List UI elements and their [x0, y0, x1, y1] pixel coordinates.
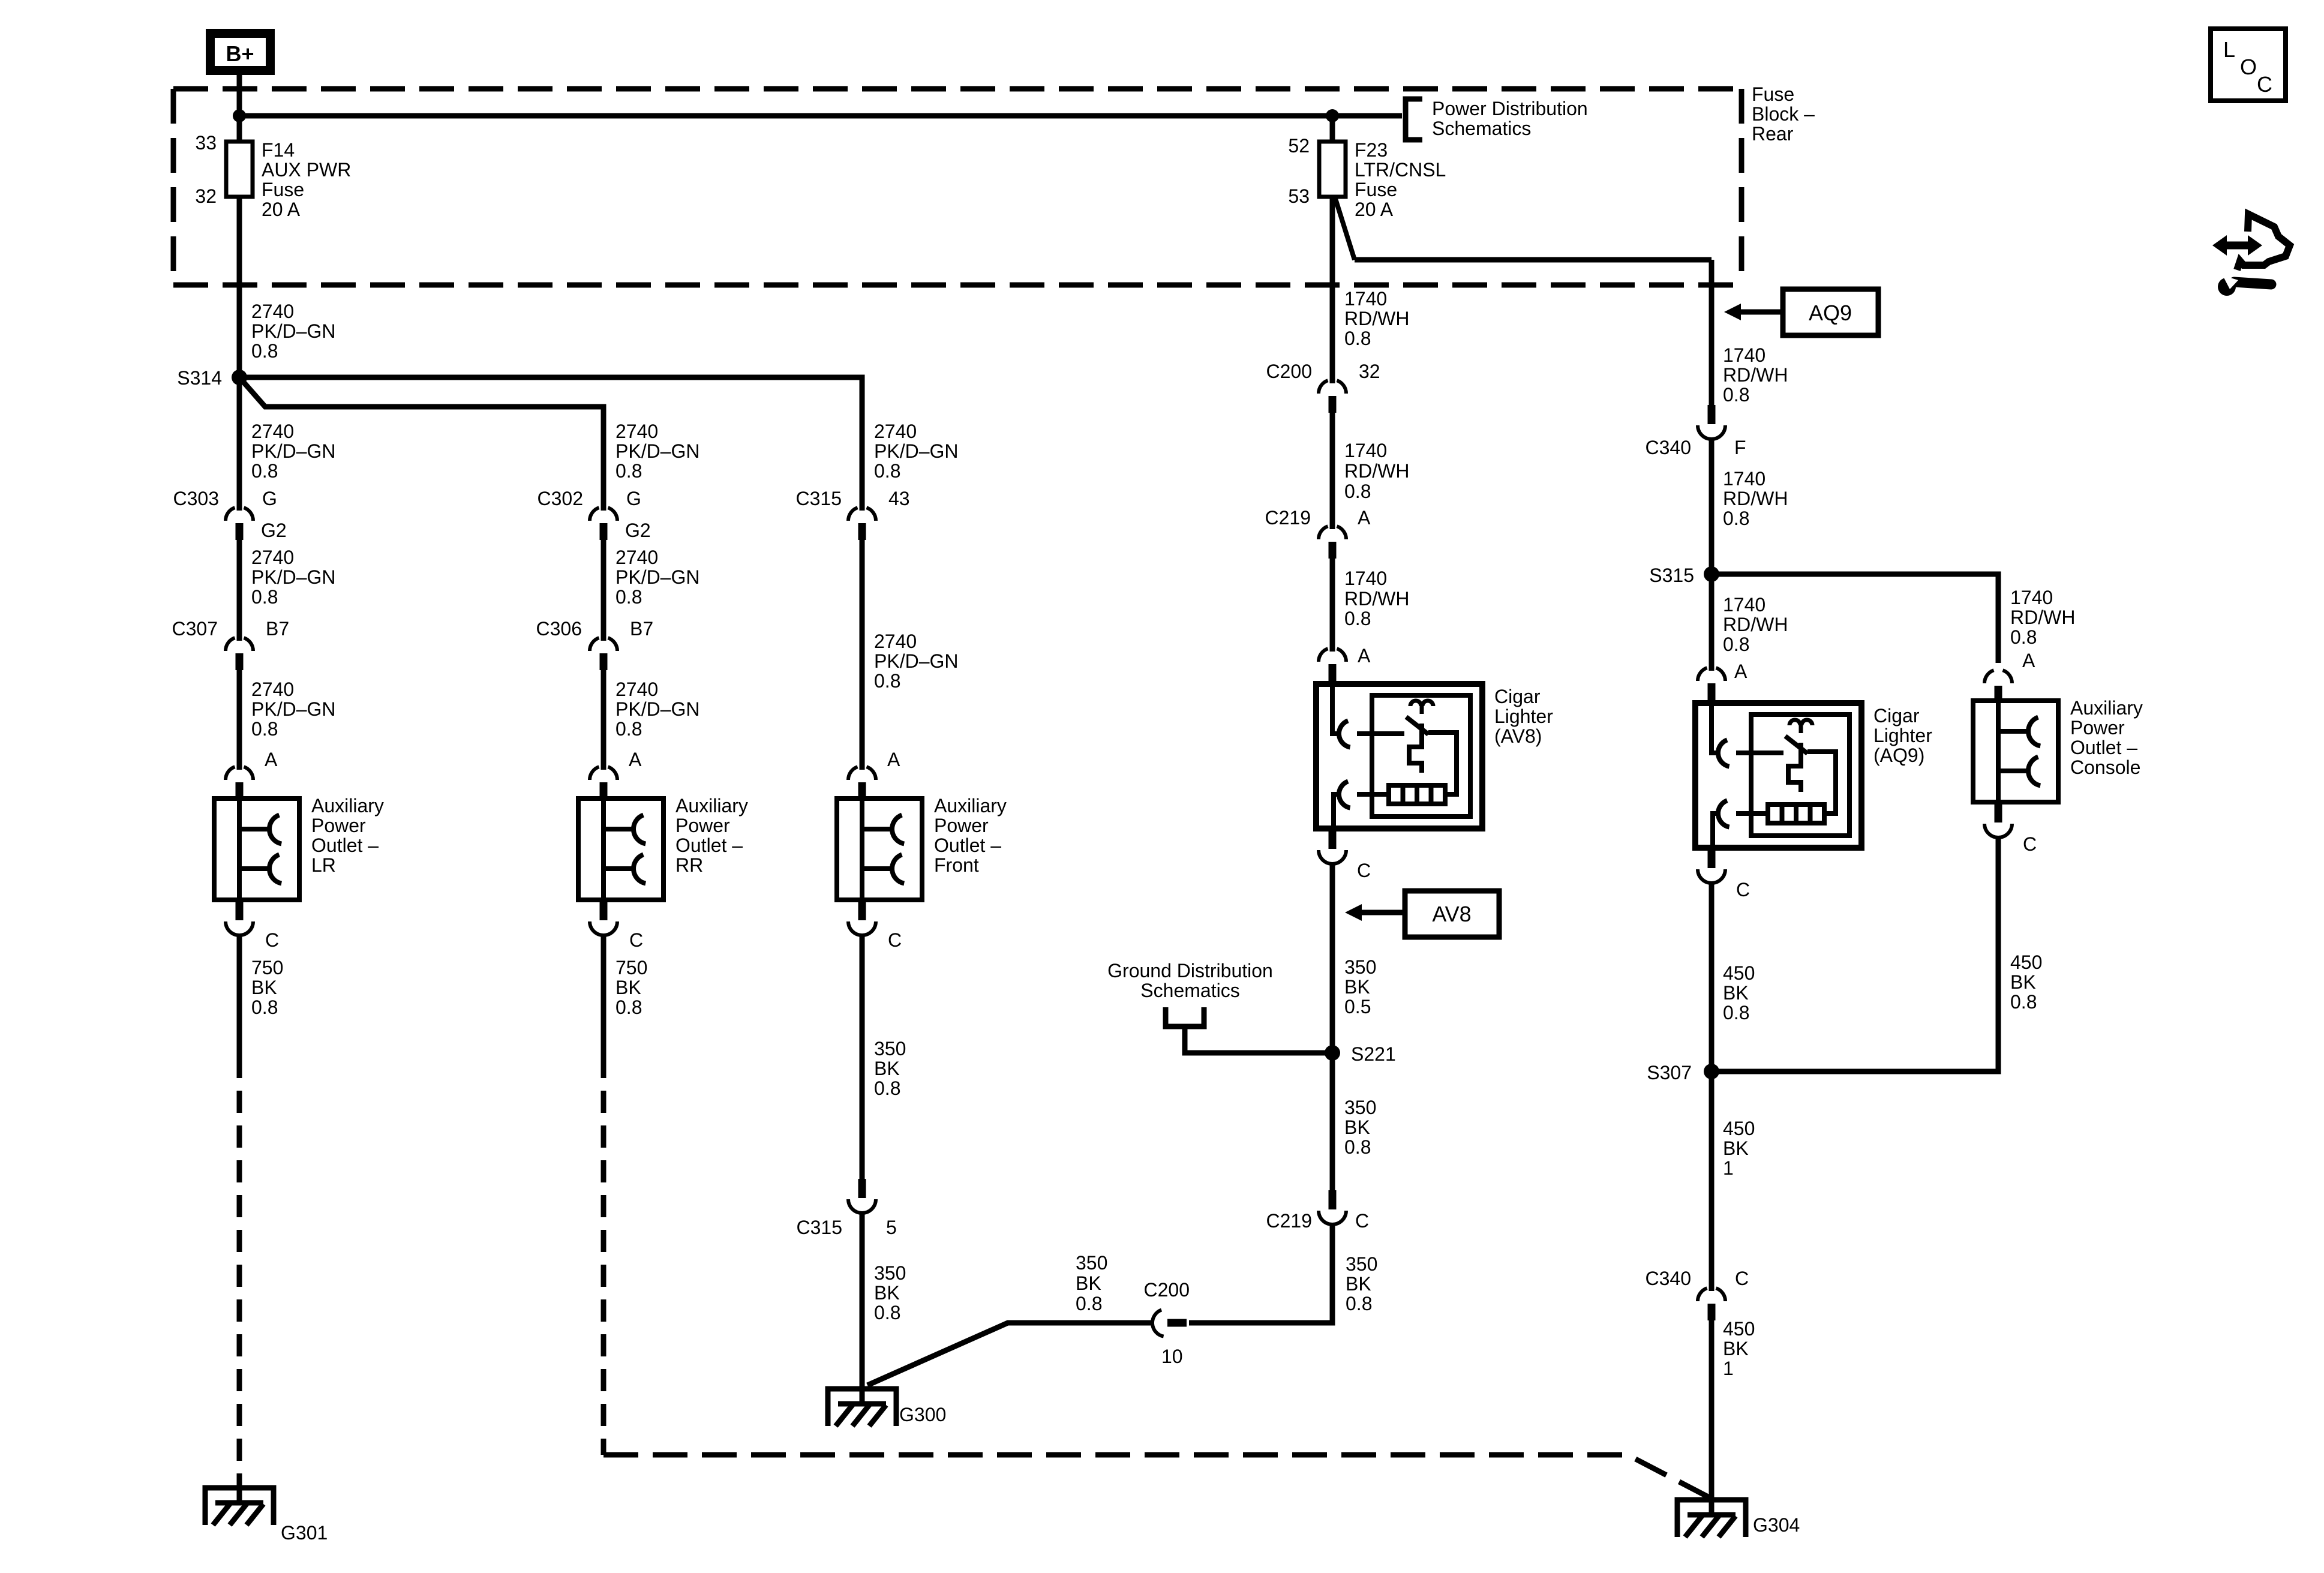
wire AQ9 drop from corner down to C340 F	[1709, 260, 1715, 406]
svg-text:A: A	[2022, 650, 2035, 671]
connector C219 pin C	[1319, 1190, 1346, 1224]
connector C200 pin 32	[1319, 380, 1346, 413]
svg-text:Outlet –: Outlet –	[934, 834, 1001, 856]
svg-text:450: 450	[2010, 951, 2042, 973]
svg-text:0.8: 0.8	[874, 460, 900, 482]
connector pin A of front outlet	[848, 767, 876, 799]
svg-text:2740: 2740	[874, 631, 917, 652]
svg-text:BK: BK	[615, 977, 641, 998]
svg-text:2740: 2740	[251, 547, 294, 568]
svg-text:2740: 2740	[251, 301, 294, 322]
svg-text:Power: Power	[311, 815, 366, 836]
svg-text:RD/WH: RD/WH	[1344, 588, 1409, 610]
svg-text:Fuse: Fuse	[1355, 179, 1397, 200]
svg-text:AQ9: AQ9	[1809, 301, 1852, 325]
node bus junction at F23 drop	[1326, 109, 1339, 122]
svg-text:G300: G300	[899, 1404, 946, 1425]
svg-text:PK/D–GN: PK/D–GN	[615, 566, 699, 588]
svg-text:Power: Power	[934, 815, 989, 836]
svg-text:Outlet –: Outlet –	[2070, 737, 2137, 758]
svg-text:20 A: 20 A	[262, 199, 301, 220]
svg-text:0.8: 0.8	[874, 1302, 900, 1323]
svg-text:C: C	[1735, 1268, 1749, 1289]
svg-text:0.8: 0.8	[615, 718, 642, 740]
icon double arrow	[2223, 242, 2251, 250]
reference box AV8	[1405, 891, 1499, 937]
svg-text:BK: BK	[874, 1282, 900, 1304]
wire pin A stub into AQ9 lighter	[1708, 698, 1716, 704]
svg-text:RR: RR	[675, 854, 703, 876]
connector pin A of console outlet	[1984, 670, 2012, 703]
svg-text:0.8: 0.8	[1344, 481, 1371, 502]
svg-text:PK/D–GN: PK/D–GN	[251, 440, 335, 462]
ground G301	[205, 1488, 274, 1525]
bracket Ground Distribution reference	[1166, 1007, 1204, 1026]
svg-text:Lighter: Lighter	[1494, 706, 1553, 727]
svg-text:0.8: 0.8	[1344, 608, 1371, 629]
svg-text:10: 10	[1161, 1346, 1183, 1367]
wire Ground Distribution reference to S221	[1185, 1026, 1332, 1053]
svg-text:450: 450	[1723, 1318, 1755, 1340]
svg-text:350: 350	[874, 1262, 906, 1284]
svg-text:B7: B7	[630, 618, 653, 640]
wire LR outlet pin C down	[237, 934, 242, 1056]
svg-text:C200: C200	[1266, 361, 1313, 382]
svg-text:BK: BK	[1723, 982, 1749, 1004]
wire LR chain F14 output down to S314 and C303	[237, 197, 242, 511]
connector pin A of LR outlet	[226, 767, 253, 799]
connector C219 pin A	[1319, 526, 1346, 559]
wire C340 F down to S315	[1709, 438, 1715, 574]
svg-text:(AV8): (AV8)	[1494, 725, 1542, 747]
svg-text:C: C	[1357, 860, 1371, 881]
svg-text:43: 43	[888, 488, 910, 509]
svg-text:C303: C303	[173, 488, 220, 509]
svg-text:S307: S307	[1647, 1062, 1692, 1083]
svg-text:O: O	[2240, 55, 2257, 79]
wire pin A stub into AV8 lighter	[1329, 679, 1337, 685]
svg-text:C315: C315	[796, 488, 842, 509]
wire C302 to C306	[601, 539, 606, 641]
svg-text:C: C	[888, 929, 902, 951]
wire B+ down to bus junction	[237, 75, 242, 142]
svg-text:Front: Front	[934, 854, 979, 876]
svg-text:5: 5	[886, 1217, 897, 1238]
wire diagonal branch from F23 to AQ9 feed	[1335, 197, 1355, 260]
svg-text:BK: BK	[1346, 1273, 1371, 1295]
svg-text:2740: 2740	[251, 679, 294, 700]
connector pin C of front outlet	[848, 901, 876, 935]
connector C315 pin 5	[848, 1179, 876, 1213]
svg-text:Auxiliary: Auxiliary	[2070, 697, 2143, 719]
svg-text:BK: BK	[1076, 1272, 1101, 1294]
ground G304	[1677, 1500, 1746, 1537]
wire S221 down to C219 pin C	[1330, 1053, 1335, 1191]
connector C302	[590, 508, 617, 540]
wire horizontal feed to cigar lighter AQ9 drop	[1355, 257, 1712, 263]
wire C306 to RR outlet pin A	[601, 669, 606, 770]
bracket Power Distribution Schematics reference	[1406, 99, 1422, 140]
wire F23 output down to C200	[1330, 197, 1335, 383]
svg-text:BK: BK	[1344, 976, 1370, 998]
svg-text:Outlet –: Outlet –	[311, 834, 379, 856]
ground G300	[828, 1389, 896, 1426]
svg-text:350: 350	[874, 1038, 906, 1059]
svg-text:20 A: 20 A	[1355, 199, 1394, 220]
wire F23 top from bus	[1330, 116, 1335, 142]
svg-text:1740: 1740	[1344, 288, 1387, 310]
svg-text:(AQ9): (AQ9)	[1873, 745, 1924, 766]
svg-text:L: L	[2223, 37, 2235, 62]
svg-text:A: A	[1734, 661, 1747, 682]
svg-text:Fuse: Fuse	[262, 179, 304, 200]
svg-text:Outlet –: Outlet –	[675, 834, 743, 856]
connector C307	[226, 638, 253, 670]
svg-text:2740: 2740	[874, 421, 917, 442]
wire dashed LR ground run to G301	[237, 1056, 242, 1488]
svg-text:0.8: 0.8	[251, 718, 278, 740]
wire C219 to cigar lighter AV8 pin A	[1330, 559, 1335, 652]
svg-text:0.8: 0.8	[1723, 508, 1749, 529]
svg-text:A: A	[887, 749, 900, 770]
svg-text:Schematics: Schematics	[1432, 118, 1531, 139]
svg-text:RD/WH: RD/WH	[1723, 364, 1788, 386]
svg-text:BK: BK	[2010, 971, 2036, 993]
svg-text:32: 32	[1359, 361, 1380, 382]
svg-text:2740: 2740	[615, 679, 658, 700]
svg-text:0.8: 0.8	[615, 996, 642, 1018]
svg-text:52: 52	[1288, 135, 1310, 157]
svg-text:A: A	[1358, 645, 1371, 667]
component Auxiliary Power Outlet - Console	[1973, 701, 2058, 802]
svg-text:0.8: 0.8	[1344, 328, 1371, 349]
svg-text:C340: C340	[1646, 437, 1692, 458]
wire C200 to C219 pin A	[1330, 413, 1335, 529]
svg-text:0.8: 0.8	[615, 460, 642, 482]
connector pin C of AQ9 lighter	[1698, 849, 1725, 883]
svg-text:0.8: 0.8	[874, 1077, 900, 1099]
svg-text:PK/D–GN: PK/D–GN	[874, 440, 958, 462]
wire branch from S314 to front outlet chain	[239, 377, 862, 511]
svg-text:0.8: 0.8	[615, 586, 642, 608]
wire dashed RR ground run to G304	[601, 1056, 606, 1455]
wire branch console outlet return to S307	[1712, 837, 1998, 1071]
icon wrench	[2234, 282, 2271, 284]
connector pin C of LR outlet	[226, 901, 253, 935]
component Auxiliary Power Outlet - LR	[214, 798, 299, 900]
svg-text:0.8: 0.8	[251, 340, 278, 362]
svg-text:1740: 1740	[1723, 344, 1765, 366]
svg-text:C219: C219	[1265, 507, 1311, 529]
svg-text:350: 350	[1076, 1252, 1107, 1274]
svg-text:A: A	[1358, 507, 1371, 529]
fuse block Fuse Block - Rear dashed boundary	[173, 89, 1742, 285]
svg-text:0.5: 0.5	[1344, 996, 1371, 1017]
connector C303	[226, 508, 253, 540]
svg-text:C315: C315	[797, 1217, 843, 1238]
svg-text:Power Distribution: Power Distribution	[1432, 98, 1588, 119]
svg-text:Auxiliary: Auxiliary	[311, 795, 384, 816]
svg-text:Rear: Rear	[1752, 123, 1794, 145]
svg-text:LR: LR	[311, 854, 336, 876]
svg-text:C302: C302	[538, 488, 584, 509]
connector pin C of AV8 lighter	[1319, 830, 1346, 864]
B+ power terminal	[211, 34, 271, 71]
svg-text:RD/WH: RD/WH	[1723, 488, 1788, 509]
wire C307 to LR outlet pin A	[237, 669, 242, 770]
node splice S221	[1325, 1045, 1340, 1061]
svg-text:RD/WH: RD/WH	[1723, 614, 1788, 635]
connector C200 pin 10	[1152, 1310, 1187, 1336]
svg-text:S314: S314	[177, 367, 222, 389]
svg-text:350: 350	[1344, 956, 1376, 978]
svg-text:F14: F14	[262, 139, 295, 161]
svg-text:0.8: 0.8	[251, 996, 278, 1018]
node splice S314	[232, 370, 247, 385]
fuse F14	[226, 142, 253, 197]
svg-text:BK: BK	[251, 977, 277, 998]
svg-text:G2: G2	[625, 520, 651, 541]
svg-text:33: 33	[195, 132, 217, 154]
svg-text:53: 53	[1288, 185, 1310, 207]
svg-text:Block –: Block –	[1752, 103, 1815, 125]
svg-text:1740: 1740	[1723, 468, 1765, 490]
arrow AQ9 reference pointing to wire	[1740, 310, 1783, 315]
svg-text:LTR/CNSL: LTR/CNSL	[1355, 159, 1446, 181]
svg-text:C: C	[2257, 72, 2272, 97]
reference box LOC	[2211, 29, 2286, 101]
wire RR outlet pin C down	[601, 934, 606, 1056]
svg-text:B7: B7	[266, 618, 289, 640]
svg-text:Auxiliary: Auxiliary	[934, 795, 1007, 816]
svg-text:Cigar: Cigar	[1873, 705, 1920, 727]
wire C200 pin 10 left and diagonal to G300	[867, 1323, 1152, 1385]
wire AQ9 pin C down to S307	[1709, 882, 1715, 1071]
svg-text:AUX PWR: AUX PWR	[262, 159, 351, 181]
svg-text:750: 750	[251, 957, 283, 978]
svg-text:32: 32	[195, 185, 217, 207]
wire C340 C down to G304	[1709, 1319, 1715, 1500]
svg-text:0.8: 0.8	[2010, 626, 2037, 648]
svg-text:C: C	[2023, 833, 2037, 855]
connector pin A of cigar lighter AV8	[1319, 649, 1346, 681]
svg-text:0.8: 0.8	[251, 460, 278, 482]
svg-text:0.8: 0.8	[251, 586, 278, 608]
svg-text:Cigar: Cigar	[1494, 686, 1541, 707]
svg-text:Fuse: Fuse	[1752, 83, 1794, 105]
svg-text:PK/D–GN: PK/D–GN	[874, 650, 958, 672]
svg-text:RD/WH: RD/WH	[1344, 308, 1409, 329]
svg-text:AV8: AV8	[1432, 902, 1471, 926]
svg-text:0.8: 0.8	[1723, 384, 1749, 406]
connector C315 pin 43	[848, 508, 876, 540]
svg-text:BK: BK	[1723, 1338, 1749, 1359]
wire branch S315 to console outlet chain	[1712, 574, 1998, 663]
reference box AQ9	[1783, 289, 1878, 335]
svg-text:PK/D–GN: PK/D–GN	[251, 698, 335, 720]
svg-text:B+: B+	[226, 41, 254, 66]
svg-text:A: A	[629, 749, 642, 770]
svg-text:1740: 1740	[2010, 587, 2053, 608]
connector pin A of RR outlet	[590, 767, 617, 799]
component Cigar Lighter AQ9	[1695, 703, 1861, 848]
svg-text:2740: 2740	[615, 547, 658, 568]
svg-text:PK/D–GN: PK/D–GN	[251, 320, 335, 342]
svg-text:1740: 1740	[1723, 594, 1765, 616]
connector C340 pin C	[1698, 1288, 1725, 1320]
svg-text:Power: Power	[2070, 717, 2125, 739]
wire horizontal bus from B+ to F23 tap	[239, 113, 1332, 119]
svg-text:F23: F23	[1355, 139, 1388, 161]
svg-text:S315: S315	[1649, 565, 1694, 586]
svg-text:Schematics: Schematics	[1140, 980, 1239, 1001]
svg-text:0.8: 0.8	[1723, 1002, 1749, 1023]
wire S315 down to cigar lighter AQ9 pin A	[1709, 574, 1715, 671]
component Auxiliary Power Outlet - Front	[837, 798, 922, 900]
wire front outlet pin C down to C315 pin 5	[860, 934, 865, 1179]
component Auxiliary Power Outlet - RR	[578, 798, 663, 900]
svg-text:0.8: 0.8	[1723, 634, 1749, 655]
wire AV8 pin C down to S221	[1330, 863, 1335, 1053]
svg-text:C: C	[265, 929, 279, 951]
svg-text:G301: G301	[281, 1522, 328, 1544]
wire C315 pin 5 down to G300	[860, 1212, 865, 1389]
fuse F23	[1319, 142, 1346, 197]
svg-text:450: 450	[1723, 962, 1755, 984]
svg-text:A: A	[265, 749, 278, 770]
wire C219 pin C down and left to C200 pin 10	[1189, 1223, 1332, 1323]
svg-text:750: 750	[615, 957, 647, 978]
svg-text:1740: 1740	[1344, 568, 1387, 589]
svg-text:Auxiliary: Auxiliary	[675, 795, 748, 816]
connector pin A of cigar lighter AQ9	[1698, 668, 1725, 700]
svg-text:BK: BK	[1723, 1137, 1749, 1159]
component Cigar Lighter AV8	[1316, 684, 1482, 828]
svg-text:350: 350	[1344, 1097, 1376, 1118]
svg-text:PK/D–GN: PK/D–GN	[251, 566, 335, 588]
svg-text:Lighter: Lighter	[1873, 725, 1932, 746]
svg-text:S221: S221	[1351, 1043, 1396, 1065]
svg-text:0.8: 0.8	[1344, 1136, 1371, 1158]
svg-text:PK/D–GN: PK/D–GN	[615, 440, 699, 462]
svg-text:1740: 1740	[1344, 440, 1387, 461]
svg-text:G2: G2	[261, 520, 287, 541]
svg-text:C: C	[1355, 1210, 1369, 1232]
svg-text:450: 450	[1723, 1118, 1755, 1139]
node splice S307	[1704, 1064, 1719, 1079]
svg-text:0.8: 0.8	[2010, 991, 2037, 1013]
svg-text:C: C	[629, 929, 643, 951]
svg-text:C306: C306	[536, 618, 582, 640]
svg-text:C219: C219	[1266, 1210, 1313, 1232]
connector pin C of console outlet	[1984, 803, 2012, 837]
node splice S315	[1704, 566, 1719, 582]
svg-text:F: F	[1734, 437, 1746, 458]
svg-text:Power: Power	[675, 815, 730, 836]
svg-text:G: G	[626, 488, 641, 509]
svg-text:2740: 2740	[251, 421, 294, 442]
svg-text:Console: Console	[2070, 757, 2140, 778]
svg-text:G: G	[262, 488, 277, 509]
svg-text:1: 1	[1723, 1157, 1734, 1179]
icon body panel outline	[2237, 214, 2290, 270]
svg-text:2740: 2740	[615, 421, 658, 442]
wire S307 down to C340 pin C	[1709, 1071, 1715, 1291]
svg-text:C: C	[1736, 879, 1750, 900]
wire C303 to C307	[237, 539, 242, 641]
svg-text:BK: BK	[874, 1058, 900, 1079]
node bus junction at B+ drop	[233, 109, 246, 122]
wire C315 to front outlet pin A	[860, 539, 865, 770]
svg-text:Ground Distribution: Ground Distribution	[1107, 960, 1273, 981]
svg-text:G304: G304	[1753, 1514, 1800, 1536]
connector C306	[590, 638, 617, 670]
svg-text:RD/WH: RD/WH	[1344, 460, 1409, 482]
svg-text:PK/D–GN: PK/D–GN	[615, 698, 699, 720]
wire branch from S314 diagonal to RR outlet chain	[239, 377, 603, 511]
svg-text:RD/WH: RD/WH	[2010, 607, 2075, 628]
svg-text:0.8: 0.8	[1346, 1293, 1372, 1314]
arrow AV8 reference pointing to wire	[1361, 910, 1405, 915]
svg-text:0.8: 0.8	[874, 670, 900, 692]
connector C340 pin F	[1698, 405, 1725, 439]
svg-text:C200: C200	[1144, 1279, 1190, 1301]
wire bus stub to Power Distribution reference	[1332, 113, 1402, 119]
svg-text:1: 1	[1723, 1358, 1734, 1379]
svg-text:C307: C307	[172, 618, 218, 640]
svg-text:0.8: 0.8	[1076, 1293, 1102, 1314]
svg-text:BK: BK	[1344, 1116, 1370, 1138]
svg-text:C340: C340	[1646, 1268, 1692, 1289]
svg-text:350: 350	[1346, 1253, 1377, 1275]
connector pin C of RR outlet	[590, 901, 617, 935]
